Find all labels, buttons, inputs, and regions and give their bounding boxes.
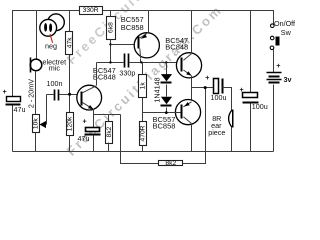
transistor Q3 BC547/BC848 NPN driver (176, 53, 201, 78)
svg-text:10k: 10k (33, 118, 40, 129)
resistor 6k8 (107, 11, 116, 63)
resistor 1k (139, 63, 147, 113)
svg-text:piece: piece (208, 128, 225, 137)
svg-text:330p: 330p (119, 69, 135, 78)
wire Q4 base (143, 112, 181, 114)
svg-text:+: + (276, 61, 280, 70)
svg-text:BC858: BC858 (121, 23, 144, 32)
svg-text:+: + (205, 73, 209, 82)
wire mic column (36, 11, 38, 60)
electret mic symbol (30, 58, 42, 73)
transistor Q4 BC557/BC858 PNP output (175, 100, 200, 125)
potentiometer 10k (33, 95, 47, 133)
wire emitter node horizontal (94, 114, 121, 116)
wire earpiece to rail (231, 128, 233, 152)
wire 100n left (47, 94, 54, 96)
svg-text:1N4148: 1N4148 (152, 77, 161, 102)
svg-text:neg: neg (45, 42, 57, 51)
diode D2 1N4148 (161, 97, 173, 113)
wire Q3 collector to rail (191, 11, 193, 54)
wire bus y62 right (130, 62, 181, 64)
wire 100n right to Q2 base (60, 94, 81, 96)
svg-text:120k: 120k (67, 116, 74, 131)
svg-text:47u: 47u (78, 134, 90, 143)
svg-text:47u: 47u (14, 105, 26, 114)
battery 3v (267, 50, 292, 152)
wire Q1 emitter to rail (148, 11, 150, 33)
capacitor 47u emitter bypass (78, 115, 101, 152)
wire Q4 collector to rail (191, 124, 193, 152)
svg-text:BC858: BC858 (153, 122, 176, 131)
wire Q2 emitter down (93, 109, 95, 115)
transistor Q2 BC547/BC848 input NPN (77, 85, 102, 110)
svg-text:3v: 3v (284, 75, 292, 84)
earpiece symbol (229, 110, 234, 128)
capacitor 100u output (205, 73, 226, 102)
transistor Q1 BC557/BC858 PNP (134, 32, 159, 58)
wire bottom rail (13, 151, 274, 153)
wire 100u to earpiece (223, 88, 232, 110)
wire pot to rail (35, 133, 37, 152)
wire left frame lower (12, 106, 14, 152)
wire Q2 collector up (96, 63, 98, 86)
wiper arrow (46, 95, 48, 125)
svg-text:+: + (83, 117, 87, 126)
svg-text:100u: 100u (252, 102, 268, 111)
svg-text:mic: mic (49, 64, 61, 73)
wire feedback drop (121, 115, 159, 164)
svg-text:2 - 20mV: 2 - 20mV (27, 79, 36, 108)
svg-text:+: + (3, 87, 7, 96)
svg-text:On/Off: On/Off (274, 19, 295, 28)
node 6k8 / Q1 base (109, 43, 111, 45)
svg-text:Sw: Sw (281, 28, 292, 37)
svg-text:8k2: 8k2 (165, 160, 176, 167)
svg-text:100n: 100n (47, 79, 63, 88)
wire Q1 base (111, 44, 138, 46)
watermark FreeCircuitDiagram.Com A (64, 0, 226, 159)
capacitor 100n (47, 79, 63, 101)
wire Q1 collector down (140, 59, 142, 63)
svg-text:BC848: BC848 (165, 42, 188, 51)
wire top rail right (103, 11, 274, 25)
capacitor 47u supply filter (3, 87, 26, 114)
wire top rail left (13, 11, 80, 97)
wire bus y62 left (97, 62, 124, 64)
svg-text:100u: 100u (211, 93, 227, 102)
svg-text:8k2: 8k2 (106, 126, 113, 137)
diode D1 1N4148 (161, 63, 173, 97)
wire feedback up (183, 88, 206, 164)
switch On/Off (270, 24, 279, 50)
svg-text:6k8: 6k8 (107, 22, 114, 33)
wire output node (192, 87, 214, 89)
wire emitter output column (191, 76, 193, 102)
svg-text:1k: 1k (139, 82, 146, 90)
red pointer line (50, 34, 53, 43)
resistor 330R (80, 7, 103, 15)
svg-text:+: + (240, 85, 244, 94)
resistor 470R (140, 113, 147, 152)
capacitor 330p (119, 54, 135, 78)
resistor 47k (66, 11, 74, 113)
svg-text:330R: 330R (83, 7, 99, 14)
wire mic to pot (35, 71, 37, 115)
electret mic capsule pictorial (40, 14, 65, 51)
capacitor 100u supply (240, 11, 268, 152)
svg-text:47k: 47k (67, 37, 74, 48)
svg-text:470R: 470R (140, 125, 147, 141)
node Q2 base junction (68, 93, 71, 96)
resistor 8k2 feedback (159, 160, 183, 167)
resistor 8k2 vertical (106, 115, 114, 152)
resistor 120k (67, 113, 74, 152)
